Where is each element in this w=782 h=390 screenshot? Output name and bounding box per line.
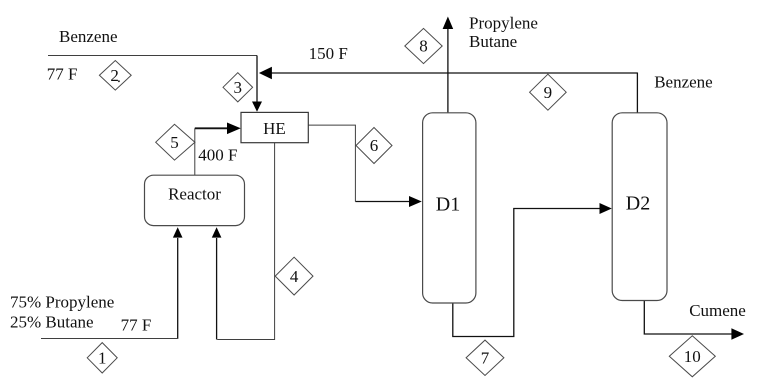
svg-text:Cumene: Cumene bbox=[689, 301, 746, 320]
svg-text:77 F: 77 F bbox=[121, 316, 152, 335]
svg-text:D2: D2 bbox=[626, 192, 650, 214]
svg-text:Benzene: Benzene bbox=[654, 73, 713, 92]
svg-text:8: 8 bbox=[419, 37, 428, 56]
svg-text:6: 6 bbox=[370, 136, 379, 155]
svg-text:9: 9 bbox=[544, 83, 553, 102]
svg-text:150 F: 150 F bbox=[309, 44, 348, 63]
svg-text:400 F: 400 F bbox=[198, 146, 237, 165]
svg-text:3: 3 bbox=[234, 78, 243, 97]
svg-text:Propylene: Propylene bbox=[469, 13, 538, 32]
svg-text:D1: D1 bbox=[436, 194, 460, 216]
svg-text:25% Butane: 25% Butane bbox=[10, 312, 94, 331]
svg-text:Butane: Butane bbox=[469, 32, 517, 51]
svg-text:Benzene: Benzene bbox=[59, 27, 118, 46]
svg-text:4: 4 bbox=[290, 267, 299, 286]
svg-text:77 F: 77 F bbox=[47, 64, 78, 83]
svg-text:5: 5 bbox=[170, 133, 179, 152]
svg-text:Reactor: Reactor bbox=[168, 184, 221, 203]
svg-text:10: 10 bbox=[684, 347, 701, 366]
svg-text:2: 2 bbox=[110, 66, 119, 85]
svg-text:1: 1 bbox=[98, 349, 107, 368]
svg-text:HE: HE bbox=[263, 119, 286, 138]
svg-text:75% Propylene: 75% Propylene bbox=[10, 292, 114, 311]
svg-text:7: 7 bbox=[481, 349, 490, 368]
